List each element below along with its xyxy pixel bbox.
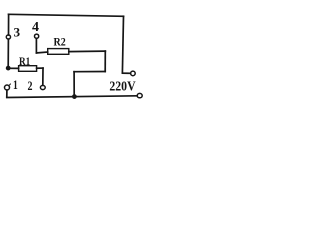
wire right vertical <box>122 16 123 72</box>
terminal 2 circle <box>40 85 45 89</box>
resistor R2 <box>48 49 69 55</box>
wire R1 right lead to corner <box>37 67 43 69</box>
wire left vertical lower (terminal 3 to corner dot) <box>7 39 9 68</box>
svg-text:4: 4 <box>32 19 39 34</box>
svg-text:R1: R1 <box>19 56 30 68</box>
resistor R1 <box>19 66 37 72</box>
terminal 3 <box>6 35 10 39</box>
wire bottom horizontal <box>7 96 137 98</box>
wire R1 left lead <box>8 67 18 69</box>
wire terminal 4 down to corner <box>35 39 37 53</box>
wire horizontal middle right <box>74 71 105 73</box>
wire vertical down to terminal 2 <box>42 68 44 85</box>
terminal 1 tick <box>9 84 10 86</box>
svg-text:220V: 220V <box>109 79 135 94</box>
svg-text:1: 1 <box>13 78 18 92</box>
wire R2 right lead <box>69 50 106 53</box>
terminal 4 <box>35 34 39 38</box>
wire center vertical (bottom junction up to corner) <box>73 72 75 97</box>
svg-text:2: 2 <box>28 78 33 93</box>
node junction dot bottom <box>72 94 77 99</box>
svg-text:3: 3 <box>14 25 21 39</box>
terminal 1 circle <box>5 85 10 90</box>
terminal 220V top <box>131 71 136 76</box>
wire top horizontal <box>9 14 124 16</box>
wire terminal 1 stub down <box>6 90 8 97</box>
terminal 220V bottom <box>137 93 142 97</box>
wire stub to 220V top terminal <box>122 72 130 74</box>
node junction dot left <box>6 66 11 71</box>
wire left vertical upper (top-left corner to terminal 3) <box>8 14 10 35</box>
wire vertical right of R2 <box>104 51 106 71</box>
svg-text:R2: R2 <box>54 37 66 49</box>
wire R2 left lead <box>36 51 47 54</box>
